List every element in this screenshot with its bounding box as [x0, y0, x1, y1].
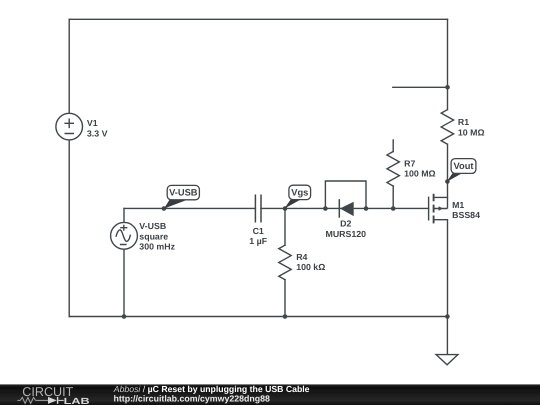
svg-text:10 MΩ: 10 MΩ [458, 128, 485, 138]
svg-text:R4: R4 [296, 252, 307, 262]
svg-text:http://circuitlab.com/cymwy228: http://circuitlab.com/cymwy228dng88 [114, 393, 271, 403]
svg-text:100 kΩ: 100 kΩ [296, 262, 325, 272]
svg-text:C1: C1 [253, 226, 264, 236]
svg-text:Vgs: Vgs [291, 188, 308, 198]
svg-text:D2: D2 [340, 219, 351, 229]
svg-text:BSS84: BSS84 [452, 210, 480, 220]
svg-text:V-USB: V-USB [139, 221, 166, 231]
svg-text:V-USB: V-USB [169, 188, 198, 198]
svg-text:300 mHz: 300 mHz [139, 242, 175, 252]
svg-text:MURS120: MURS120 [326, 229, 367, 239]
svg-text:Vout: Vout [454, 161, 474, 171]
svg-text:LAB: LAB [64, 396, 90, 405]
svg-text:V1: V1 [87, 118, 98, 128]
svg-text:100 MΩ: 100 MΩ [404, 168, 436, 178]
svg-text:R7: R7 [404, 159, 415, 169]
svg-text:1 µF: 1 µF [249, 236, 267, 246]
svg-text:R1: R1 [458, 117, 469, 127]
svg-text:M1: M1 [452, 200, 464, 210]
svg-text:3.3 V: 3.3 V [87, 129, 108, 139]
svg-text:square: square [139, 231, 168, 241]
